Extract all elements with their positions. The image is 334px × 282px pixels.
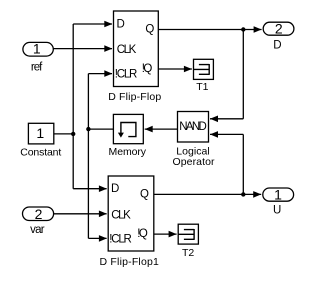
svg-text:ref: ref xyxy=(31,62,43,74)
svg-text:!Q: !Q xyxy=(142,63,153,75)
svg-text:2: 2 xyxy=(275,21,283,37)
svg-text:!CLR: !CLR xyxy=(109,233,132,245)
svg-text:D Flip-Flop1: D Flip-Flop1 xyxy=(100,256,159,268)
svg-text:T2: T2 xyxy=(182,247,194,259)
svg-text:CLK: CLK xyxy=(111,209,131,221)
svg-text:Q: Q xyxy=(145,24,154,36)
svg-text:!CLR: !CLR xyxy=(115,69,138,81)
svg-text:1: 1 xyxy=(33,40,41,56)
svg-text:var: var xyxy=(30,224,45,236)
svg-text:D: D xyxy=(111,183,119,195)
svg-text:CLK: CLK xyxy=(117,44,137,56)
svg-text:Constant: Constant xyxy=(20,147,61,159)
svg-text:Operator: Operator xyxy=(172,156,215,168)
svg-text:Q: Q xyxy=(140,188,149,200)
svg-text:U: U xyxy=(273,205,281,217)
svg-text:D: D xyxy=(117,18,125,30)
svg-text:D Flip-Flop: D Flip-Flop xyxy=(108,91,161,103)
svg-text:Memory: Memory xyxy=(109,146,147,158)
svg-text:2: 2 xyxy=(35,206,43,222)
svg-text:!Q: !Q xyxy=(137,228,148,240)
svg-text:1: 1 xyxy=(274,186,282,202)
svg-text:1: 1 xyxy=(36,125,44,141)
svg-text:NAND: NAND xyxy=(179,121,207,133)
svg-text:D: D xyxy=(273,40,281,52)
svg-text:T1: T1 xyxy=(196,81,208,93)
